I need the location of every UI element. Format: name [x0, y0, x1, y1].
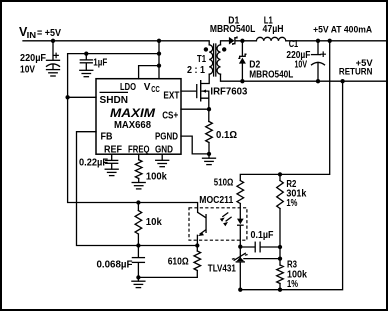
- svg-text:C1: C1: [289, 39, 299, 50]
- svg-text:610Ω: 610Ω: [168, 257, 189, 268]
- svg-text:MAX668: MAX668: [114, 120, 151, 131]
- svg-text:RETURN: RETURN: [339, 66, 373, 76]
- svg-text:IN: IN: [27, 31, 37, 40]
- svg-text:T1: T1: [197, 54, 206, 65]
- svg-text:FREQ: FREQ: [128, 144, 150, 155]
- svg-text:0.1µF: 0.1µF: [251, 230, 274, 241]
- svg-text:REF: REF: [104, 144, 122, 155]
- svg-text:V: V: [144, 82, 151, 93]
- svg-text:FB: FB: [101, 131, 113, 142]
- svg-text:MBRO540L: MBRO540L: [249, 70, 293, 81]
- svg-text:EXT: EXT: [163, 90, 179, 101]
- svg-text:10V: 10V: [295, 59, 308, 70]
- svg-text:0.1Ω: 0.1Ω: [216, 130, 237, 141]
- svg-text:CC: CC: [151, 85, 160, 94]
- svg-text:510Ω: 510Ω: [214, 177, 234, 188]
- svg-text:10V: 10V: [20, 64, 35, 75]
- svg-text:2 : 1: 2 : 1: [187, 65, 205, 76]
- svg-text:220µF: 220µF: [20, 53, 46, 64]
- svg-text:0.068µF: 0.068µF: [97, 259, 133, 270]
- svg-text:PGND: PGND: [155, 131, 178, 142]
- svg-text:10k: 10k: [146, 217, 162, 228]
- svg-text:1µF: 1µF: [93, 57, 107, 68]
- svg-text:SHDN: SHDN: [100, 95, 129, 106]
- svg-text:100k: 100k: [146, 171, 167, 182]
- svg-text:CS+: CS+: [162, 111, 178, 122]
- svg-text:LDO: LDO: [120, 82, 136, 93]
- svg-text:MBRO540L: MBRO540L: [210, 24, 256, 35]
- svg-text:47µH: 47µH: [263, 24, 284, 35]
- svg-text:+5V AT 400mA: +5V AT 400mA: [313, 25, 372, 35]
- svg-text:MAXIM: MAXIM: [110, 106, 156, 120]
- svg-text:TLV431: TLV431: [208, 264, 236, 275]
- svg-text:MOC211: MOC211: [199, 195, 233, 206]
- svg-text:GND: GND: [155, 144, 173, 155]
- svg-text:1%: 1%: [287, 279, 298, 290]
- svg-text:1%: 1%: [286, 198, 297, 209]
- svg-text:0.22µF: 0.22µF: [79, 157, 108, 168]
- svg-text:= +5V: = +5V: [37, 28, 61, 39]
- svg-text:IRF7603: IRF7603: [210, 87, 247, 98]
